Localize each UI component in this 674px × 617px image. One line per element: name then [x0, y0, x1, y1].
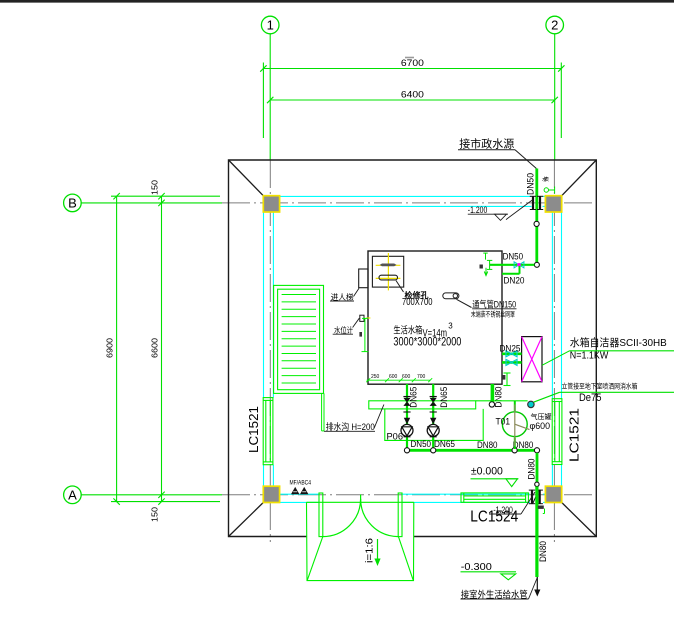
column top-right	[545, 196, 561, 212]
tank drain stub	[504, 373, 511, 386]
svg-text:LC1521: LC1521	[246, 406, 261, 453]
suction header	[407, 449, 537, 452]
svg-text:N=1.1KW: N=1.1KW	[570, 350, 609, 362]
float valve on fill pipe	[514, 262, 524, 268]
svg-text:150: 150	[151, 506, 160, 522]
roof hip SE	[562, 502, 597, 536]
svg-text:250: 250	[371, 374, 380, 380]
label 通气管DN150	[472, 299, 516, 310]
sprinkler riser symbol	[528, 401, 534, 407]
svg-text:DN80: DN80	[526, 459, 536, 480]
access ladder box	[359, 269, 368, 288]
DN80 tank outlet riser	[491, 384, 495, 402]
svg-text:1: 1	[267, 18, 274, 33]
self-clean device box	[522, 337, 542, 382]
axis 2 green line	[554, 34, 556, 160]
header junction circles	[404, 448, 409, 453]
drain trench rect B	[385, 409, 483, 441]
svg-text:150: 150	[151, 179, 160, 195]
label 进人梯	[330, 288, 359, 302]
tiny marks near sleeve	[538, 506, 544, 509]
label 接室外生活给水管	[461, 578, 538, 601]
label -1.200 top	[468, 200, 533, 221]
water level gauge	[359, 315, 370, 351]
svg-text:DN65: DN65	[409, 387, 419, 408]
svg-text:排水沟 H=200: 排水沟 H=200	[326, 421, 375, 432]
grid bubble B	[64, 194, 82, 212]
svg-text:DN80: DN80	[477, 440, 498, 450]
svg-text:6600: 6600	[151, 337, 160, 358]
svg-text:气压罐: 气压罐	[531, 412, 552, 421]
svg-text:6700: 6700	[401, 58, 424, 68]
water meter symbol	[544, 187, 555, 194]
svg-text:600: 600	[402, 374, 411, 380]
svg-text:-1.200: -1.200	[493, 505, 513, 515]
svg-text:700X700: 700X700	[402, 297, 433, 308]
window LC1521 left	[263, 398, 273, 465]
ramp slope arrow	[374, 539, 380, 566]
stair outer rect	[274, 285, 324, 393]
svg-text:±0.000: ±0.000	[471, 465, 503, 477]
svg-text:φ600: φ600	[530, 421, 551, 431]
svg-text:水箱自洁器SCII-30HB: 水箱自洁器SCII-30HB	[570, 336, 667, 349]
label -1.200 bottom	[489, 492, 535, 515]
window LC1524 bottom	[461, 493, 528, 502]
svg-text:立管接至地下室喷洒网消水箱: 立管接至地下室喷洒网消水箱	[562, 381, 638, 390]
axis A green line	[81, 494, 222, 496]
svg-text:末端装不锈钢丝网罩: 末端装不锈钢丝网罩	[471, 310, 515, 319]
svg-text:P06: P06	[387, 431, 404, 441]
dimension 6400	[267, 97, 558, 103]
svg-text:DN20: DN20	[504, 275, 525, 285]
grid bubble A	[64, 486, 82, 504]
junction circle	[535, 482, 539, 486]
svg-text:DN25: DN25	[500, 343, 521, 353]
junction circle on riser	[534, 221, 539, 226]
left dimension chain 150/6600/150	[111, 193, 220, 505]
svg-text:3000*3000*2000: 3000*3000*2000	[393, 335, 461, 349]
drain trench rect A	[369, 401, 476, 409]
wall sleeve bottom	[532, 490, 540, 504]
wall sleeve top	[533, 196, 540, 210]
svg-text:600: 600	[389, 374, 398, 380]
vent pipe symbol	[443, 293, 472, 308]
svg-text:6900: 6900	[106, 337, 115, 358]
ramp outline	[307, 502, 414, 580]
water tank outline	[368, 251, 502, 384]
svg-text:3: 3	[448, 322, 453, 331]
top border line	[0, 0, 674, 3]
svg-text:LC1521: LC1521	[567, 408, 582, 462]
svg-text:水表: 水表	[542, 176, 549, 183]
pump 1 assembly	[401, 384, 413, 450]
svg-text:B: B	[68, 196, 77, 211]
DN25 pipes to device	[502, 352, 522, 355]
DN80 exit pipe	[535, 487, 538, 578]
axis 1 green line	[269, 34, 271, 160]
grid bubble 1	[261, 16, 279, 34]
svg-text:-1.200: -1.200	[468, 205, 488, 215]
label 水位计	[333, 318, 360, 335]
svg-text:DN50: DN50	[526, 173, 536, 195]
dimension 6700	[260, 63, 564, 139]
DN50 fill pipe to tank	[490, 264, 535, 266]
roof hip SW	[229, 502, 264, 536]
svg-text:DN80: DN80	[538, 541, 548, 562]
svg-text:DN50: DN50	[503, 252, 523, 262]
door jamb right	[398, 493, 402, 537]
fill inlet fitting in tank	[483, 253, 492, 276]
svg-text:水位计: 水位计	[334, 325, 353, 335]
manhole top bar	[380, 264, 397, 267]
axis 1 centerline gray	[269, 160, 271, 542]
roof eave outline	[229, 160, 597, 537]
drain channel below stair	[322, 393, 324, 431]
svg-text:DN65: DN65	[434, 439, 455, 449]
valves on DN25	[506, 351, 517, 357]
DN50 inlet pipe riser	[535, 169, 538, 222]
DN80 downpipe from header	[536, 453, 539, 482]
wall glazing lines left	[264, 212, 274, 486]
window LC1521 right	[552, 399, 562, 465]
tank fill junction circle	[534, 262, 539, 267]
stray gray dash	[405, 57, 414, 59]
label 水箱自洁器SCII-30HB	[542, 336, 674, 366]
roof hip NE	[562, 160, 597, 196]
label ±0.000	[471, 465, 519, 486]
axis B green line	[81, 202, 222, 204]
svg-text:2: 2	[551, 18, 558, 33]
svg-text:T01: T01	[496, 417, 511, 427]
manhole yellow centerline	[387, 253, 389, 290]
svg-text:进人梯: 进人梯	[331, 292, 354, 302]
svg-text:DN50: DN50	[411, 439, 432, 449]
pump 2 assembly	[427, 384, 439, 450]
tank bottom dimension chain	[366, 378, 432, 382]
label -0.300	[461, 562, 517, 580]
svg-text:MF/ABC4: MF/ABC4	[290, 480, 312, 486]
svg-text:DN80: DN80	[513, 440, 534, 450]
label 排水沟 H=200	[324, 405, 384, 433]
door jamb left	[319, 493, 323, 537]
manhole leader	[396, 281, 404, 293]
svg-text:De75: De75	[579, 392, 602, 404]
door leaves and swing arcs	[323, 495, 399, 537]
left dimension line 6900	[113, 193, 119, 505]
label 立管接至地下室... De75	[534, 381, 674, 404]
svg-text:700: 700	[417, 374, 426, 380]
svg-text:6400: 6400	[401, 89, 424, 99]
DN20 branch pipe	[502, 266, 520, 274]
wall glazing lines top	[280, 196, 546, 206]
stair treads	[282, 295, 316, 384]
svg-text:DN80: DN80	[494, 387, 504, 408]
axis A centerline gray	[222, 494, 596, 496]
fire extinguishers MF/ABC4	[290, 480, 312, 494]
wall glazing lines right	[552, 212, 561, 486]
roof hip NW	[229, 160, 264, 196]
manhole handle stadium	[379, 275, 398, 280]
svg-text:A: A	[68, 487, 77, 502]
column bottom-left	[263, 486, 279, 502]
svg-text:DN65: DN65	[439, 387, 449, 408]
pipe line to riser symbol	[476, 400, 528, 402]
axis 2 centerline gray	[553, 160, 555, 542]
wall glazing lines bottom	[280, 494, 546, 502]
grid bubble 2	[546, 16, 564, 34]
svg-text:接市政水源: 接市政水源	[459, 137, 514, 151]
svg-text:i=1:6: i=1:6	[365, 538, 376, 563]
axis B centerline gray	[222, 202, 596, 204]
manhole box	[372, 256, 403, 287]
column bottom-right	[545, 486, 561, 502]
label 接市政水源	[458, 137, 536, 169]
svg-text:通气管DN150: 通气管DN150	[472, 299, 516, 310]
pressure tank T01	[502, 401, 529, 449]
exit arrow	[534, 577, 540, 597]
column top-left	[263, 196, 279, 212]
